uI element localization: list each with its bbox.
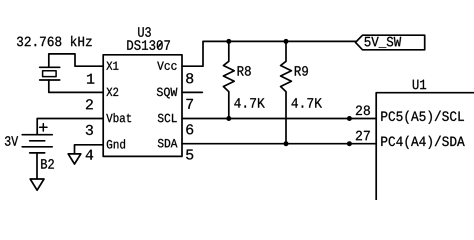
refdes U1 <box>413 80 426 90</box>
IC U3 body <box>103 55 182 157</box>
wire X2 to crystal bottom <box>49 80 103 92</box>
pin number 5 <box>186 150 193 160</box>
wire Vcc pin 8 to 5V rail <box>182 41 356 66</box>
junction node SDA-R9 <box>284 141 289 146</box>
pin number 3 <box>86 125 93 135</box>
wire SDA pin 5 to U1 pin 27 <box>182 143 376 145</box>
junction node rail-R9 <box>284 39 289 44</box>
wire battery minus to ground <box>36 153 38 179</box>
wire SQW pin 7 stub <box>182 91 202 93</box>
junction node SDA-pin27 <box>347 141 352 146</box>
refdes U3 <box>138 27 151 37</box>
pin label SQW <box>157 88 178 99</box>
refdes R9 <box>295 66 308 76</box>
value DS1307 <box>127 40 170 50</box>
junction node SCL-pin28 <box>347 116 352 121</box>
crystal bottom plate <box>40 79 60 81</box>
battery B2 plate long 2 <box>22 146 52 148</box>
pin number 4 <box>86 150 93 160</box>
value 4.7K of R8 <box>234 98 264 107</box>
ground symbol below B2 <box>30 179 44 190</box>
IC U1 body edges <box>376 93 474 200</box>
refdes R8 <box>238 66 251 76</box>
pin label SDA <box>158 139 178 148</box>
battery voltage 3V <box>5 136 18 146</box>
net label 5V_SW <box>365 37 402 48</box>
junction node rail-R8 <box>226 39 231 44</box>
pin label SCL <box>158 114 177 123</box>
pin label PC4(A4)/SDA <box>381 136 464 149</box>
battery B2 plate long 1 <box>22 134 52 136</box>
wire Gnd pin 4 to ground <box>75 145 104 154</box>
pin number 2 <box>86 99 93 109</box>
battery plus sign <box>40 124 47 131</box>
crystal top plate <box>40 66 60 68</box>
pin number 28 <box>356 106 370 116</box>
wire X1 to crystal top <box>49 54 103 67</box>
pin number 27 <box>356 131 370 141</box>
resistor R8 <box>223 41 234 118</box>
pin label Vcc <box>157 62 176 70</box>
pin label X1 <box>106 62 118 70</box>
pin label Vbat <box>106 113 131 122</box>
junction node SCL-R8 <box>226 116 231 121</box>
pin label PC5(A5)/SCL <box>381 111 464 124</box>
crystal body <box>43 71 57 77</box>
value 4.7K of R9 <box>292 98 323 107</box>
pin number 8 <box>186 73 193 83</box>
pin number 7 <box>186 99 193 109</box>
battery B2 plate short 1 <box>30 140 45 142</box>
resistor R9 <box>281 41 292 143</box>
pin number 1 <box>87 74 94 84</box>
net flag 5V_SW outline <box>356 35 425 50</box>
slash of zero in DS1307 <box>157 42 162 49</box>
ground symbol at pin 4 <box>68 154 81 164</box>
crystal value 32.768 kHz <box>17 36 92 46</box>
wire SCL pin 6 to U1 pin 28 <box>182 118 376 120</box>
wire battery plus to Vbat pin 3 <box>37 119 103 134</box>
pin label Gnd <box>107 139 125 148</box>
pin label X2 <box>106 88 118 96</box>
pin number 6 <box>186 124 193 134</box>
refdes B2 <box>41 159 54 169</box>
battery B2 plate short 2 <box>30 152 45 154</box>
